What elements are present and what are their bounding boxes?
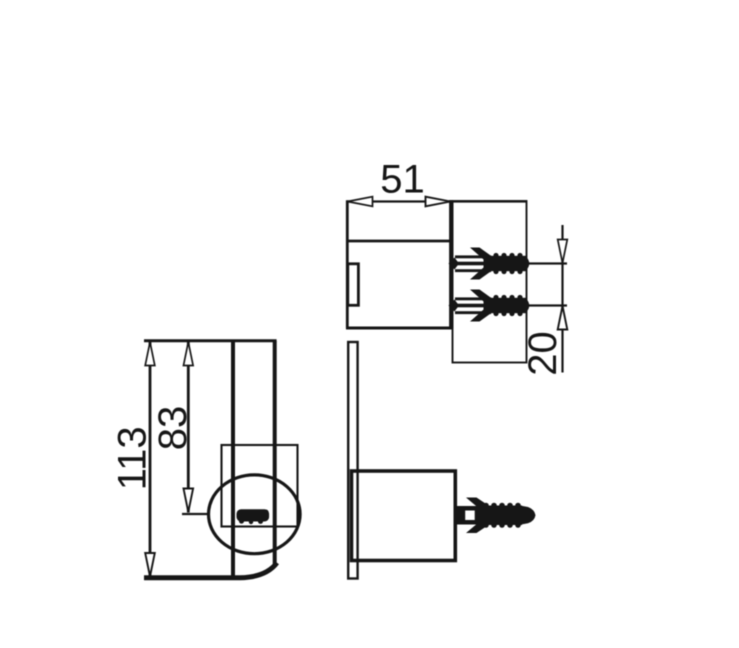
dimension 113: vertical line with hollow arrows xyxy=(145,342,155,578)
front view: top edge line xyxy=(144,339,277,342)
front view: bottom edge with curved tube bottom xyxy=(144,563,277,578)
wall anchor screw 2 (top view) xyxy=(449,290,530,322)
front view: roll holder tube left edge xyxy=(231,341,235,576)
top view: bracket left vertical edge xyxy=(346,200,349,328)
dimension 20: vertical line with hollow arrows xyxy=(558,225,568,373)
front view: roll holder tube right edge xyxy=(273,341,277,566)
dimension 51: line with hollow arrows xyxy=(347,197,526,207)
mounting screw (side view) xyxy=(456,498,536,534)
top view: bracket bottom edge xyxy=(346,327,453,330)
svg-text:83: 83 xyxy=(151,406,195,451)
wall anchor screw 1 (top view) xyxy=(449,248,530,280)
side view: wall plate xyxy=(348,342,357,579)
front view: wall plate square xyxy=(222,445,298,527)
svg-text:113: 113 xyxy=(111,426,155,490)
dimension label 83 (rotated) xyxy=(151,406,195,451)
svg-text:51: 51 xyxy=(380,158,425,202)
dimension label 51 xyxy=(380,158,425,202)
top view: bracket inner horizontal line xyxy=(346,240,452,243)
dimension label 113 (rotated) xyxy=(111,426,155,490)
dimension 83: vertical line with hollow arrows xyxy=(184,342,194,513)
extension line from screw 2 xyxy=(529,304,567,306)
top view: bracket right mounting plate (thick) xyxy=(449,200,453,329)
extension line from screw 1 xyxy=(529,262,567,264)
side view: holder housing box xyxy=(352,471,456,561)
front view: mounting flange circle xyxy=(209,475,301,554)
extension line at 83 bottom xyxy=(182,513,209,515)
TOTO logo text xyxy=(237,509,270,524)
top view: left slot detail xyxy=(348,264,359,306)
top view: wall board rectangle xyxy=(453,201,527,363)
dimension label 20 (rotated) xyxy=(521,331,565,376)
svg-text:20: 20 xyxy=(521,331,565,376)
